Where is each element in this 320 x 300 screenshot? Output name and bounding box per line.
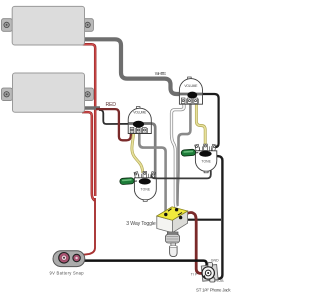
tone pot left (lugs up) [134,172,156,202]
svg-text:VOLUME: VOLUME [184,84,198,88]
svg-text:WHITE: WHITE [155,71,167,76]
pickup 2 (neck humbucker) [2,73,94,112]
wire: pickup 2 shield to left volume casing (black, stepped) [99,110,134,124]
volume pot right (bridge volume) [179,77,202,104]
wire: left volume casing bus to tone bus (gray) [141,124,155,178]
wire: left volume wiper to toggle lug 1 (gray) [139,129,165,211]
wire: battery positive to red bus [82,198,95,255]
wire: pickup 1 red down the middle [82,44,95,196]
svg-text:TONE: TONE [201,160,211,164]
wire: right volume lug1 white wire to toggle (white with outline) [172,103,185,208]
volume pot left (neck volume) [128,107,151,134]
svg-text:RED: RED [105,102,116,108]
toggle shaft bushing [167,232,178,234]
svg-text:3 Way Toggle: 3 Way Toggle [126,221,156,227]
wire: right volume yellow to right tone middle lug [196,103,205,146]
capacitor left tone (green) [120,178,137,185]
toggle solder lugs [164,213,167,216]
wire: black from right tone casing down to jack ring lug [211,156,223,279]
1/4 inch stereo phone jack [201,263,218,282]
svg-text:9V Battery Snap: 9V Battery Snap [50,270,85,275]
wire: pickup 2 red joining red bus [82,112,95,200]
wire: left volume yellow to left tone middle lug [132,131,143,174]
svg-text:VOLUME: VOLUME [133,111,147,115]
front face [157,216,173,233]
wire: right volume wiper to toggle lug 2 (gray) [177,103,190,207]
wire: black from right volume casing to right tone lug (right side vertical) [196,94,219,147]
wire: pickup 1 shielded cable (thick gray) [82,39,192,94]
svg-text:TIP: TIP [191,272,198,276]
top face yellow [157,207,188,220]
wire: pickup 2 shielded cable (thick gray) [82,106,100,109]
right face [172,211,187,233]
svg-text:ST 1/4" Phone Jack: ST 1/4" Phone Jack [196,288,231,293]
wire: tone ground bus left tone lug3 to right tone casing [151,171,211,179]
wire: toggle switch ground to right vertical (black) [186,219,221,221]
pickup 1 (bridge humbucker) [2,6,94,45]
svg-text:TONE: TONE [141,187,151,191]
3-way toggle switch [157,207,188,257]
svg-text:GND: GND [211,259,219,263]
toggle lever tip (capsule) [170,246,178,256]
9V battery snap [53,251,85,267]
wire: battery snap negative to jack gnd (long black) [84,261,207,267]
wire: toggle output to jack tip (maroon) [181,213,204,274]
capacitor right tone (green) [181,149,198,156]
tone pot right (lugs up) [195,144,217,173]
svg-text:HUB: HUB [216,279,225,283]
wire: pickup 2 red (maroon) to left volume lug 1 [96,109,131,140]
wire: red battery/power bus (vertical) [82,44,95,255]
